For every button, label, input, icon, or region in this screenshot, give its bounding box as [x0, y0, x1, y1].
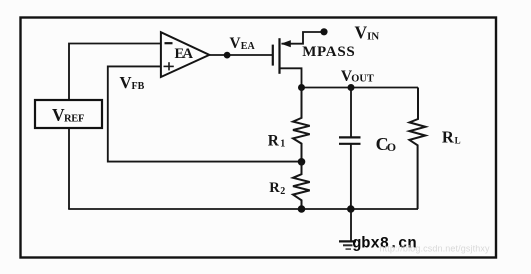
wire: EA output to MPASS gate — [209, 54, 273, 56]
svg-text:L: L — [455, 135, 461, 145]
svg-text:V: V — [230, 35, 241, 52]
svg-text:IN: IN — [367, 31, 379, 43]
node VOUT junction dot — [348, 84, 355, 91]
label MPASS — [302, 44, 355, 60]
svg-text:O: O — [387, 140, 396, 154]
node VEA junction dot — [224, 52, 231, 59]
resistor RL (load) — [409, 88, 460, 210]
voltage reference VREF box — [35, 100, 102, 128]
node: CO bottom junction dot on ground rail — [347, 205, 355, 213]
net label VFB — [120, 73, 145, 92]
svg-text:V: V — [120, 73, 132, 92]
resistor R1 — [268, 88, 310, 163]
node VIN input terminal dot — [320, 28, 327, 35]
minus marker on inverting input — [165, 42, 173, 44]
watermark text gbx8.cn — [352, 235, 417, 253]
net label VIN — [355, 22, 380, 42]
svg-text:2: 2 — [280, 186, 285, 197]
wire: VOUT rail — [302, 87, 419, 89]
svg-text:V: V — [355, 22, 368, 42]
svg-text:http://blog.csdn.net/gsjthxy: http://blog.csdn.net/gsjthxy — [380, 243, 491, 253]
svg-text:EA: EA — [241, 41, 256, 52]
node: drain junction dot on VOUT rail — [298, 84, 305, 91]
svg-text:REF: REF — [64, 114, 84, 125]
wire: ground stub below rail — [350, 209, 352, 241]
wire: VREF top up and right to EA inverting input — [69, 44, 161, 101]
svg-text:MPASS: MPASS — [302, 44, 355, 60]
node: R2 bottom junction dot on ground rail — [298, 205, 306, 213]
resistor R2 — [269, 162, 309, 209]
svg-text:OUT: OUT — [351, 74, 374, 85]
ground symbol — [339, 241, 356, 249]
svg-text:1: 1 — [280, 139, 285, 150]
op-amp U1 (error amplifier EA) — [161, 32, 209, 77]
net label VOUT — [341, 68, 374, 85]
wire: EA non-inverting input left and down to feedback tap (VFB net) — [108, 66, 298, 161]
svg-text:EA: EA — [175, 46, 194, 62]
plus marker on non-inverting input — [164, 65, 174, 67]
node: feedback tap junction dot (VFB) — [298, 158, 306, 166]
svg-text:R: R — [268, 133, 280, 150]
net label VEA — [230, 35, 256, 52]
transistor MPASS (PMOS pass device) — [273, 32, 321, 88]
svg-text:R: R — [442, 128, 455, 147]
wire: VREF bottom down to ground rail — [68, 128, 70, 209]
capacitor CO — [339, 88, 396, 210]
svg-text:FB: FB — [132, 81, 145, 92]
svg-text:R: R — [269, 180, 280, 196]
wire: bottom ground rail — [68, 208, 418, 210]
faint watermark url — [380, 243, 491, 253]
